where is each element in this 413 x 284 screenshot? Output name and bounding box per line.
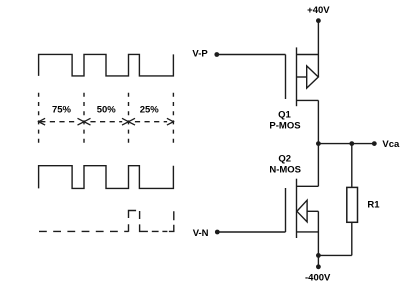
wire dimension arrow shaft 75% span: [40, 121, 78, 123]
wire dimension arrow shaft 25% span: [135, 121, 167, 123]
wire Q1 drain to output node: [317, 100, 319, 143]
transistor Q2 N-MOS channel bar: [296, 179, 298, 238]
wire V-N gate lead: [217, 231, 285, 233]
node arrowhead left at divider 1: [39, 118, 46, 125]
node +40V supply terminal dot: [316, 18, 321, 23]
wire -400V junction to terminal: [317, 255, 319, 266]
node -400V supply terminal dot: [316, 264, 321, 269]
transistor Q2 drain stub (top): [297, 185, 319, 187]
transistor Q2 body stub (middle): [307, 210, 318, 212]
node output junction dot: [316, 141, 321, 146]
transistor Q2 source stub (bottom): [297, 231, 319, 233]
resistor R1 bottom lead: [351, 222, 353, 255]
wire waveform V-N trace (PWM, solid): [39, 166, 174, 189]
resistor R1 body: [347, 187, 358, 222]
svg-text:-400V: -400V: [305, 272, 331, 283]
wire R1 bottom to -400V node: [318, 254, 351, 256]
svg-text:R1: R1: [367, 199, 380, 210]
transistor Q1 body arrow (points right, P-MOS): [307, 66, 319, 88]
transistor Q2 body arrow (points left, N-MOS): [297, 200, 307, 222]
transistor Q1 source stub (top): [297, 54, 319, 56]
wire output node down to Q2 drain: [317, 144, 319, 187]
node V-P input terminal dot: [214, 52, 219, 57]
wire Q2 body-source to -400V node: [317, 211, 319, 255]
wire waveform Vca dashed trace low segment right: [152, 211, 174, 231]
node -400V junction dot: [316, 253, 321, 258]
node V-N input terminal dot: [215, 230, 220, 235]
transistor Q1 P-MOS gate bar: [285, 55, 287, 100]
svg-text:N-MOS: N-MOS: [269, 165, 301, 176]
wire waveform V-P trace (75/50/25% PWM, solid): [39, 54, 174, 76]
node Vca terminal dot: [372, 141, 377, 146]
transistor Q1 body stub (middle): [297, 76, 307, 78]
svg-text:75%: 75%: [52, 104, 72, 115]
node period divider dashed line 2: [83, 93, 85, 145]
wire V-P gate lead: [217, 54, 286, 56]
wire +40V supply to Q1 source: [317, 21, 319, 77]
transistor Q2 N-MOS gate bar: [285, 188, 287, 232]
node arrowheads at divider 2: [78, 118, 91, 125]
resistor R1 top lead: [351, 144, 353, 188]
node period divider dashed line 3: [128, 93, 130, 145]
svg-text:V-N: V-N: [193, 228, 209, 239]
svg-text:50%: 50%: [97, 104, 117, 115]
svg-text:Vca: Vca: [382, 139, 400, 150]
svg-text:25%: 25%: [140, 104, 160, 115]
node R1 top junction dot: [349, 141, 354, 146]
svg-text:Q2: Q2: [278, 154, 291, 165]
wire dimension arrow shaft 50% span: [90, 121, 122, 123]
node arrowheads at divider 3: [122, 118, 135, 125]
node period divider dashed line 1: [38, 93, 40, 145]
wire waveform Vca dashed trace low segment left: [39, 230, 129, 232]
svg-text:P-MOS: P-MOS: [269, 121, 300, 132]
svg-text:+40V: +40V: [307, 5, 330, 16]
transistor Q1 P-MOS channel bar: [296, 47, 298, 106]
node period divider dashed line 4: [172, 93, 174, 145]
svg-text:V-P: V-P: [192, 49, 208, 60]
wire output node to Vca terminal: [318, 143, 374, 145]
node arrowhead right at divider 4: [167, 118, 174, 125]
wire waveform Vca dashed trace pulse: [129, 211, 148, 232]
svg-text:Q1: Q1: [278, 110, 291, 121]
transistor Q1 drain stub (bottom): [297, 99, 319, 101]
